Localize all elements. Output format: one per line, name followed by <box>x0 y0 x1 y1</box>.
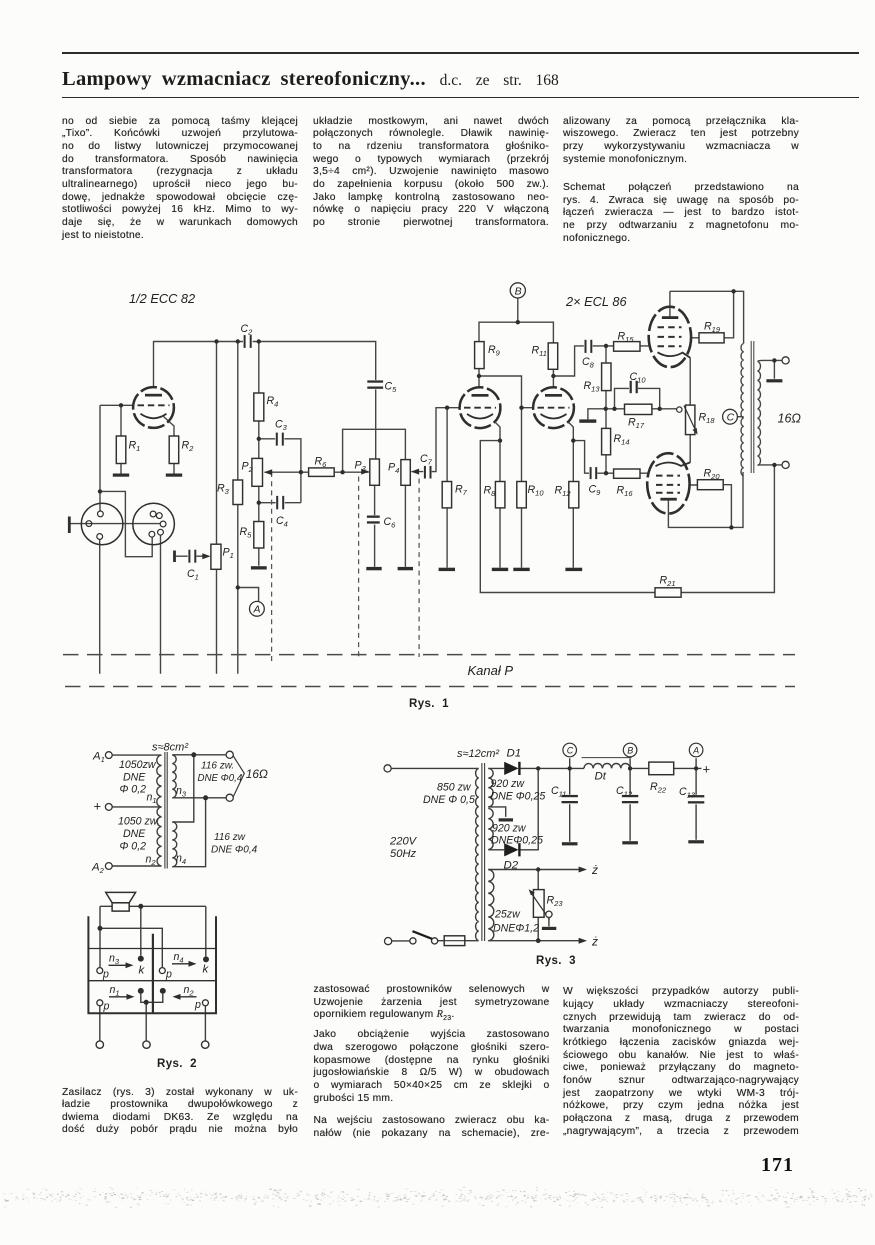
svg-text:n4: n4 <box>176 853 186 867</box>
wire: k2 drop <box>205 906 207 956</box>
top text column 3 <box>563 116 799 246</box>
bottom terminal left <box>96 1041 103 1048</box>
wire: socket1 bottom pin to channel P <box>99 539 101 673</box>
wire: socket2 pin to channel P <box>160 535 162 674</box>
bobbin center divider <box>152 934 154 1013</box>
wire: dashed channel divider 1 <box>271 472 273 662</box>
wire: T4 anode node to C8 <box>553 346 584 376</box>
svg-text:+: + <box>703 762 711 777</box>
arrow line n4 <box>172 963 190 965</box>
wire: dashed boundary line lower <box>65 686 795 688</box>
svg-text:C4: C4 <box>276 515 288 529</box>
resistor R6 <box>309 468 335 477</box>
terminal secondary lower <box>226 794 233 801</box>
svg-text:C: C <box>727 412 735 424</box>
transformer Tg secondary winding n4 <box>172 822 176 867</box>
scanner noise band <box>3 1187 872 1209</box>
svg-text:C: C <box>567 746 574 756</box>
potentiometer R23 adjust arrow <box>529 889 550 919</box>
terminal k n2 <box>160 988 166 994</box>
svg-text:R21: R21 <box>660 575 676 589</box>
resistor R14 <box>602 428 611 454</box>
wire: T1 cathode to R2 ground <box>164 417 175 474</box>
capacitor C12 <box>622 795 638 805</box>
svg-text:DNE Φ0,4: DNE Φ0,4 <box>211 845 258 856</box>
arrow P3 wiper <box>361 469 369 475</box>
svg-text:R16: R16 <box>617 485 634 499</box>
wire: left drop to p <box>99 906 101 967</box>
bottom text column 1 <box>62 1087 298 1138</box>
wire: C12 branch <box>629 768 631 840</box>
wire: socket link <box>100 491 152 556</box>
svg-text:R1: R1 <box>129 440 141 454</box>
junction n3 n4 top <box>191 752 196 757</box>
svg-text:R6: R6 <box>315 456 328 470</box>
input terminal lug <box>68 517 71 534</box>
svg-text:P4: P4 <box>388 462 399 476</box>
wire: heater top row <box>488 869 579 871</box>
ground under C6 <box>366 567 381 570</box>
svg-text:DNE: DNE <box>123 772 146 784</box>
wire: C9 node to R16 to pentode grid <box>596 472 647 474</box>
svg-text:Φ 0,2: Φ 0,2 <box>120 841 147 853</box>
svg-text:R4: R4 <box>267 395 279 409</box>
svg-text:1050 zw.: 1050 zw. <box>118 816 160 828</box>
input socket S2 <box>133 503 175 545</box>
junction dot left branch <box>98 926 103 931</box>
svg-text:A: A <box>692 746 699 756</box>
wire: center tap lead <box>112 806 161 808</box>
svg-text:n4: n4 <box>174 951 184 965</box>
capacitor C11 <box>562 795 578 805</box>
svg-text:R13: R13 <box>584 380 601 394</box>
arrow n4 <box>189 961 197 967</box>
svg-text:C3: C3 <box>275 419 288 433</box>
wire: R4 P2 R5 chain <box>258 342 260 566</box>
wire: mains top lead <box>391 767 478 769</box>
wire: mains bottom to fuse <box>392 940 479 942</box>
resistor R3 <box>233 480 243 505</box>
svg-text:P1: P1 <box>223 547 234 561</box>
svg-text:R10: R10 <box>528 484 545 498</box>
resistor R13 <box>602 363 611 391</box>
arrow line n2 <box>179 996 197 998</box>
wire: C4 branch <box>259 502 301 504</box>
wire: row2 join <box>141 994 163 1041</box>
node B psu <box>623 743 637 757</box>
wire: dashed channel divider 2 <box>358 477 360 661</box>
svg-text:C8: C8 <box>582 356 595 370</box>
svg-text:Φ 0,2: Φ 0,2 <box>120 784 147 796</box>
wire: node C stub <box>569 758 571 768</box>
transformer Tg primary winding n1 <box>157 755 162 807</box>
svg-text:C5: C5 <box>385 381 398 395</box>
svg-text:R3: R3 <box>217 483 230 497</box>
switch W <box>410 931 438 944</box>
capacitor C1 <box>188 550 197 564</box>
resistor R9 <box>475 342 485 369</box>
svg-text:R8: R8 <box>484 485 497 499</box>
svg-text:2× ECL 86: 2× ECL 86 <box>565 294 627 309</box>
wire: n3 top to n4 top link <box>172 755 194 822</box>
capacitor C10 <box>629 381 638 394</box>
transformer Tz core <box>482 763 485 941</box>
svg-text:p: p <box>103 1001 110 1013</box>
junction dot speaker bus <box>138 904 143 909</box>
capacitor C5 <box>367 380 383 389</box>
resistor R7 <box>442 482 451 508</box>
bottom text column 2 <box>314 984 550 1141</box>
svg-text:p: p <box>165 969 172 981</box>
wire: R23 wiper to ground <box>548 918 550 927</box>
svg-text:R23: R23 <box>547 895 564 909</box>
capacitor C2 <box>243 335 253 348</box>
tube V4 pentode of ECL86 upper <box>649 307 691 367</box>
svg-text:R15: R15 <box>618 331 635 345</box>
wire: A1 lead <box>112 754 161 756</box>
wire: C1 input row <box>176 555 209 557</box>
resistor R1 <box>116 436 126 464</box>
svg-text:920 zw: 920 zw <box>491 778 526 790</box>
svg-text:R11: R11 <box>532 345 547 359</box>
wire: secondary bottom to output terminal <box>758 464 782 466</box>
svg-text:C2: C2 <box>241 323 254 337</box>
top text column 2 <box>313 116 549 230</box>
tube V2 triode of ECL86 <box>460 387 501 428</box>
capacitor C6 <box>367 515 380 524</box>
diode D1 <box>504 762 519 775</box>
arrow n1 <box>127 994 135 1000</box>
wire: rail choke to R22 <box>630 767 649 769</box>
svg-text:A: A <box>253 604 261 616</box>
potentiometer R23 wiper terminal <box>546 911 552 917</box>
bottom terminal center <box>143 1041 150 1048</box>
arrow line n3 <box>109 964 128 966</box>
transformer Tg secondary winding n3 <box>172 755 176 798</box>
svg-text:n3: n3 <box>176 785 187 799</box>
mains terminal top <box>384 765 391 772</box>
wire: R11 to T4 anode <box>552 369 554 387</box>
wire: C10 loop <box>615 388 660 408</box>
wire: pentode1 screen R19 loop <box>691 291 734 338</box>
svg-text:R14: R14 <box>614 433 630 447</box>
ground at output terminal <box>766 379 782 382</box>
svg-text:R5: R5 <box>240 526 253 540</box>
svg-text:DNE Φ0,25: DNE Φ0,25 <box>491 791 546 803</box>
bobbin winding layer lines <box>88 949 216 981</box>
svg-text:C11: C11 <box>551 785 566 799</box>
svg-text:R18: R18 <box>699 412 716 426</box>
svg-text:n1: n1 <box>147 792 157 806</box>
terminal p n4 <box>159 968 165 974</box>
wire: dashed channel divider 3 <box>418 479 420 658</box>
wire: rail R22 to plus <box>674 767 702 769</box>
svg-text:DNEΦ0,25: DNEΦ0,25 <box>491 835 543 847</box>
svg-text:25zw: 25zw <box>494 909 521 921</box>
wire: R1 drop <box>120 405 122 473</box>
transformer Tg core <box>165 752 167 869</box>
transformer Tz primary winding <box>476 768 479 940</box>
ground under R5 <box>251 566 267 569</box>
capacitor C3 <box>275 432 284 446</box>
wire: P4 bottom to ground <box>404 485 406 567</box>
svg-text:p: p <box>102 969 109 981</box>
terminal plus <box>105 804 112 811</box>
svg-text:850 zw: 850 zw <box>437 782 472 794</box>
svg-text:C10: C10 <box>630 371 647 385</box>
wire: pentode1 anode to transformer <box>670 291 744 343</box>
junction n3 n4 bottom <box>203 795 208 800</box>
svg-text:DNE Φ0,4: DNE Φ0,4 <box>198 773 243 784</box>
resistor R15 <box>614 342 640 352</box>
node C <box>723 409 738 424</box>
wire: tone network bar above P3 P4 <box>343 429 406 471</box>
wire: P3 bottom to C6 ground <box>374 485 376 567</box>
wire: R18 to cathodes <box>689 358 691 463</box>
wire: node B stub and rail <box>479 298 553 343</box>
arrow heater bottom <box>579 938 587 944</box>
output terminal lower <box>782 461 789 468</box>
resistor R22 <box>649 762 674 775</box>
wire: n3 top to terminal <box>172 754 226 756</box>
arrow line n1 <box>109 996 128 998</box>
svg-text:116 zw.: 116 zw. <box>201 761 234 772</box>
bottom text column 3 <box>563 986 799 1138</box>
transformer Tz HV winding lower <box>488 808 493 849</box>
terminal A2 <box>105 863 112 870</box>
wire: secondary top to output terminal <box>758 360 782 378</box>
wire: heater bottom row <box>488 940 579 942</box>
wire: grid bus to socket top pin <box>99 405 101 511</box>
svg-text:B: B <box>627 746 633 756</box>
wire: D1 cathode to C11 node <box>519 767 584 769</box>
ground under R2 <box>166 474 182 477</box>
svg-text:DNEΦ1,2: DNEΦ1,2 <box>493 923 539 935</box>
input terminal lug at C1 <box>173 551 176 563</box>
ground under R12 <box>565 568 582 571</box>
svg-text:Dt: Dt <box>595 771 607 783</box>
ground under R10 <box>513 568 529 571</box>
resistor R4 <box>254 393 264 421</box>
resistor R11 <box>548 343 558 369</box>
wire: C13 branch <box>695 768 697 839</box>
potentiometer P3 <box>370 459 380 485</box>
svg-text:R19: R19 <box>704 321 721 335</box>
resistor R8 <box>495 482 505 508</box>
svg-text:R2: R2 <box>182 440 195 454</box>
wire: C3 branch <box>259 439 301 503</box>
svg-text:ż: ż <box>591 863 598 877</box>
mains terminal bottom <box>385 938 392 945</box>
diode D2 <box>504 843 519 856</box>
resistor R17 <box>625 404 652 414</box>
resistor R16 <box>614 469 640 478</box>
ground under C11 <box>562 842 578 845</box>
svg-text:R7: R7 <box>455 484 468 498</box>
wire: n3 bottom to terminal <box>172 797 226 799</box>
wire: R9 to T3 anode <box>478 369 480 388</box>
svg-text:n2: n2 <box>184 984 195 998</box>
resistor R20 <box>697 480 723 490</box>
svg-text:Kanał P: Kanał P <box>468 663 514 678</box>
svg-text:116 zw: 116 zw <box>214 832 246 843</box>
svg-text:C9: C9 <box>589 484 602 498</box>
wire: T4 cathode to C9 <box>573 441 589 474</box>
svg-text:1050zw: 1050zw <box>119 759 157 771</box>
wire: top rail C2 right to C5 <box>253 342 376 381</box>
input socket S1 <box>81 503 123 545</box>
ground under R7 <box>439 568 455 571</box>
ground under C13 <box>688 840 704 843</box>
capacitor C4 <box>276 496 285 510</box>
inductor Dt choke winding <box>584 764 630 769</box>
arrow P2 wiper <box>264 469 272 475</box>
potentiometer P2 <box>252 458 263 486</box>
wire: k1 drop <box>140 906 142 955</box>
wire: pentode2 anode to transformer <box>668 472 743 527</box>
wire: node B stub <box>629 758 631 768</box>
svg-text:B: B <box>515 285 522 297</box>
junction dots psu <box>536 766 699 943</box>
wire: HV center tap <box>488 807 505 817</box>
resistor R2 <box>169 436 179 464</box>
wire: C11 branch <box>569 768 571 841</box>
transformer Tz HV winding upper <box>488 768 493 806</box>
svg-text:C13: C13 <box>679 786 696 800</box>
svg-text:+: + <box>94 799 102 814</box>
svg-text:A1: A1 <box>92 751 105 765</box>
resistor R21 <box>655 588 681 597</box>
wire: T1 grid line <box>100 404 134 406</box>
svg-text:16Ω: 16Ω <box>246 767 268 781</box>
wire: pentode2 screen R20 loop <box>690 485 732 528</box>
terminal p n3 <box>97 968 103 974</box>
capacitor C13 <box>688 795 704 805</box>
svg-text:R17: R17 <box>628 417 645 431</box>
terminal k n1 <box>138 988 144 994</box>
potentiometer R18 wiper terminal <box>677 407 682 412</box>
svg-text:s≈8cm²: s≈8cm² <box>152 742 188 754</box>
wire: R17 row <box>606 408 677 410</box>
svg-text:16Ω: 16Ω <box>778 412 802 426</box>
svg-text:920 zw: 920 zw <box>492 823 527 835</box>
wire: node C stub <box>737 416 743 418</box>
wire: B+ top rail to C2 left <box>154 342 244 388</box>
svg-text:k: k <box>139 965 146 977</box>
wire: C7 to P4 wiper <box>412 408 460 472</box>
wire: T4 cathode to R12 <box>569 423 573 568</box>
svg-text:220V: 220V <box>389 836 418 848</box>
terminal p n1 <box>97 1000 103 1006</box>
resistor R19 <box>699 333 724 343</box>
wire: n4 bottom link <box>172 798 205 867</box>
ground at HV center tap <box>499 818 513 821</box>
fuse Bz <box>444 936 465 946</box>
bottom terminal right <box>202 1041 209 1048</box>
ground under P4 <box>398 567 413 570</box>
wire: dashed boundary line upper <box>63 654 795 656</box>
arrow n2 <box>173 994 181 1000</box>
svg-text:C6: C6 <box>384 516 397 530</box>
terminal A1 <box>105 752 112 759</box>
arrow heater top <box>579 867 587 873</box>
wire: branch to p2 <box>100 928 162 967</box>
inductor Dt core line <box>582 757 632 759</box>
terminal k n3 <box>138 956 144 962</box>
svg-text:1/2 ECC 82: 1/2 ECC 82 <box>129 291 195 306</box>
resistor R5 <box>254 522 264 549</box>
transformer Tr secondary winding <box>758 362 761 466</box>
potentiometer P1 <box>211 544 221 569</box>
potentiometer R18 <box>686 405 695 435</box>
terminal secondary upper <box>226 751 233 758</box>
wire: vertical bus through P1 <box>216 342 218 674</box>
svg-text:n3: n3 <box>109 953 120 967</box>
svg-text:C1: C1 <box>187 568 199 582</box>
tube V5 pentode of ECL86 lower <box>647 453 690 513</box>
arrow P4 wiper <box>411 469 419 475</box>
capacitor C8 <box>584 340 593 354</box>
node C psu <box>563 743 577 757</box>
terminal k n4 <box>203 956 209 962</box>
svg-text:s≈12cm²: s≈12cm² <box>457 748 499 760</box>
junction dot center tap <box>144 1000 149 1005</box>
wire: A2 lead <box>112 865 161 867</box>
wire: P2 wiper line <box>265 471 301 473</box>
svg-text:DNE Φ 0,5: DNE Φ 0,5 <box>423 794 475 806</box>
speaker <box>106 892 136 911</box>
wire: R9 node to R10 and T4 grid <box>479 376 533 568</box>
wire: C8 to R15 <box>591 345 648 347</box>
output terminal upper <box>782 357 789 364</box>
wire: socket chord from input lug <box>71 523 161 525</box>
terminal p n2 <box>202 1000 208 1006</box>
capacitor C7 <box>423 466 431 479</box>
wire: D2 row and riser <box>488 768 538 849</box>
transformer Tr core <box>751 341 754 473</box>
svg-text:C7: C7 <box>420 453 433 467</box>
node A <box>250 601 265 616</box>
arrow C1 to P1 wiper <box>202 553 210 559</box>
wire: R23 chain <box>537 870 539 941</box>
svg-text:p: p <box>194 999 201 1011</box>
ground at R13 R14 node <box>579 419 596 422</box>
svg-text:R22: R22 <box>650 781 667 795</box>
bobbin box walls <box>87 916 217 1013</box>
wire: p left drop <box>99 1006 101 1041</box>
ground under R8 <box>492 568 508 571</box>
arrow n3 <box>126 962 134 968</box>
tube V3 triode of ECL86 <box>533 387 574 428</box>
wire: R13 R14 chain <box>605 346 607 473</box>
svg-text:D1: D1 <box>507 748 522 760</box>
ground under R1 <box>113 474 129 477</box>
wire: D1 anode lead <box>488 767 504 769</box>
svg-text:D2: D2 <box>504 860 519 872</box>
wire: R7 drop from grid node <box>446 408 448 568</box>
svg-text:n1: n1 <box>110 984 120 998</box>
transformer Tz heater winding <box>488 870 494 941</box>
potentiometer R23 <box>533 890 544 918</box>
wire: speaker bus <box>100 905 206 907</box>
wire: 16 ohm bracket <box>233 756 244 797</box>
ground under C12 <box>622 841 638 844</box>
potentiometer P4 <box>401 460 410 486</box>
capacitor C9 <box>589 467 597 480</box>
resistor R10 <box>517 482 527 508</box>
node A psu <box>689 743 703 757</box>
svg-text:ż: ż <box>591 935 598 949</box>
